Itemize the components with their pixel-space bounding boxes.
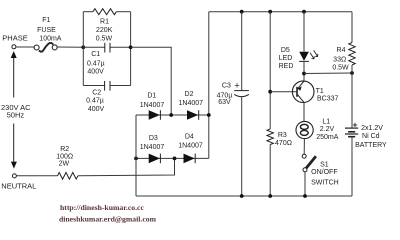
svg-text:L1: L1 [322,118,330,125]
label D5 LED RED [279,47,294,70]
junction bottom C3 [240,194,244,198]
diode D4 [184,154,195,164]
svg-text:D3: D3 [149,135,158,142]
bottom rail [136,195,352,197]
switch S1 [302,154,316,172]
svg-text:50Hz: 50Hz [7,110,25,119]
svg-text:ON/OFF: ON/OFF [311,169,337,176]
wire top to R1 [83,11,93,13]
svg-text:33Ω: 33Ω [333,57,346,64]
junction top LED branch [302,10,306,14]
wire R2 to bridge AC2 [78,158,175,175]
fuse F1 [34,43,57,52]
svg-text:2W: 2W [59,161,70,168]
label R4 33ohm 0.5W [332,47,349,72]
svg-text:C1: C1 [91,51,100,58]
svg-text:PHASE: PHASE [2,34,27,43]
junction bottom switch [303,194,307,198]
svg-text:Ni Cd: Ni Cd [362,133,380,140]
mains arrow 230V AC [13,58,15,162]
svg-text:FUSE: FUSE [37,27,56,34]
resistor R2 [58,173,79,180]
LED arrows [310,50,318,59]
wire left box vertical [82,12,84,86]
label C2 0.47u 400V [86,89,104,113]
svg-text:NEUTRAL: NEUTRAL [1,181,36,190]
label D4 1N4007 [178,133,203,149]
label D1 1N4007 [140,92,165,109]
svg-text:R3: R3 [278,132,287,139]
svg-text:0.47µ: 0.47µ [87,60,105,67]
label D2 1N4007 [179,91,204,107]
svg-text:R1: R1 [100,19,109,26]
svg-text:100Ω: 100Ω [56,153,73,160]
svg-text:63V: 63V [218,99,231,106]
svg-text:R2: R2 [60,146,69,153]
bridge top rail [136,114,209,116]
label C3 + 470u 63V [217,81,241,106]
svg-text:D4: D4 [185,133,194,140]
resistor R1 [93,9,116,15]
wire collector [303,74,305,82]
svg-text:SWITCH: SWITCH [311,179,339,186]
junction bridge AC1 [169,113,173,117]
wire base branch vertical [269,12,271,129]
svg-text:220K: 220K [96,27,113,34]
wire bridge positive riser [208,12,210,159]
wire emitter to lamp [303,102,305,121]
svg-text:1N4007: 1N4007 [140,144,165,151]
svg-text:400V: 400V [88,106,105,113]
junction R4 bottom [350,71,354,75]
svg-text:D5: D5 [281,47,290,54]
svg-text:2x1.2V: 2x1.2V [361,125,383,132]
svg-text:0.5W: 0.5W [96,35,113,42]
diode D2 [187,110,198,120]
svg-text:C3: C3 [222,82,231,89]
svg-text:100mA: 100mA [39,36,62,43]
diode D1 [149,110,160,120]
terminal PHASE [12,45,16,49]
junction base node [268,90,272,94]
transistor T1 [292,81,314,103]
junction phase node [81,45,85,49]
svg-text:0.5W: 0.5W [332,64,349,71]
wire battery negative to bottom rail [351,137,353,196]
label L1 2.2V 250mA [316,118,339,141]
label S1 ON/OFF SWITCH [311,162,339,187]
wire battery positive [351,73,353,128]
label R1 220K 0.5W [96,19,113,43]
label 2x1.2V Ni Cd BATTERY [355,125,387,149]
resistor R4 [351,12,353,43]
svg-text:+: + [234,81,240,92]
svg-text:http://dinesh-kumar.co.cc: http://dinesh-kumar.co.cc [60,203,144,212]
junction bridge AC2 [173,157,177,161]
resistor R3 [267,129,273,145]
wire phase to fuse [16,46,34,48]
wire node to R4 [304,72,352,75]
junction top base branch [268,10,272,14]
label F1 FUSE 100mA [37,17,62,43]
junction C1 right [129,45,133,49]
svg-text:F1: F1 [42,17,50,24]
antialias helper [0,0,1,1]
svg-text:BC337: BC337 [317,96,339,103]
svg-text:1N4007: 1N4007 [140,102,165,109]
junction top C3 [240,10,244,14]
capacitor C2 [83,85,104,87]
svg-text:1N4007: 1N4007 [179,100,204,107]
capacitor C1 [83,46,105,48]
svg-text:2.2V: 2.2V [320,126,335,133]
svg-text:D2: D2 [185,91,194,98]
svg-text:R4: R4 [337,47,346,54]
wire top positive rail [209,11,352,13]
junction bridge positive [207,113,211,117]
LED D5 [303,12,305,52]
wire base to transistor [270,91,297,93]
svg-text:1N4007: 1N4007 [178,143,203,150]
wire right box vertical [130,12,132,86]
bridge bottom rail [136,157,209,159]
label T1 BC337 [316,88,339,103]
junction LED cathode node [302,72,306,76]
svg-text:LED: LED [279,55,293,62]
svg-text:250mA: 250mA [316,134,339,141]
wire neutral to R2 [16,175,57,177]
svg-text:BATTERY: BATTERY [355,142,387,149]
label C1 0.47u 400V [87,51,105,76]
junction bridge negative [134,157,138,161]
wire R1 to corner [117,11,131,13]
wire R3 to bottom rail [269,145,271,197]
label 230V AC 50Hz [1,103,31,119]
wire bridge negative to bottom rail [135,115,137,196]
svg-text:T1: T1 [316,88,324,95]
junction bottom R3 [268,194,272,198]
diode D3 [149,154,160,164]
svg-text:D1: D1 [147,92,156,99]
battery B1 [345,128,358,137]
svg-text:RED: RED [279,63,294,70]
battery plus sign [353,123,357,127]
svg-text:470Ω: 470Ω [275,140,292,147]
svg-text:C2: C2 [92,89,101,96]
label R3 470ohm [275,132,292,147]
wire switch to bottom rail [304,172,306,196]
svg-text:0.47µ: 0.47µ [86,98,104,105]
terminal NEUTRAL [12,174,16,178]
wire node to bridge AC1 [131,47,172,115]
wire lamp to switch [303,139,305,155]
capacitor C3 [241,12,243,91]
svg-text:dineshkumar.erd@gmail.com: dineshkumar.erd@gmail.com [59,215,157,224]
wire fuse to node [57,46,83,48]
label R2 100ohm 2W [56,146,73,168]
lamp L1 [296,121,313,138]
label D3 1N4007 [140,135,165,151]
svg-text:S1: S1 [320,162,329,169]
svg-text:400V: 400V [87,69,104,76]
